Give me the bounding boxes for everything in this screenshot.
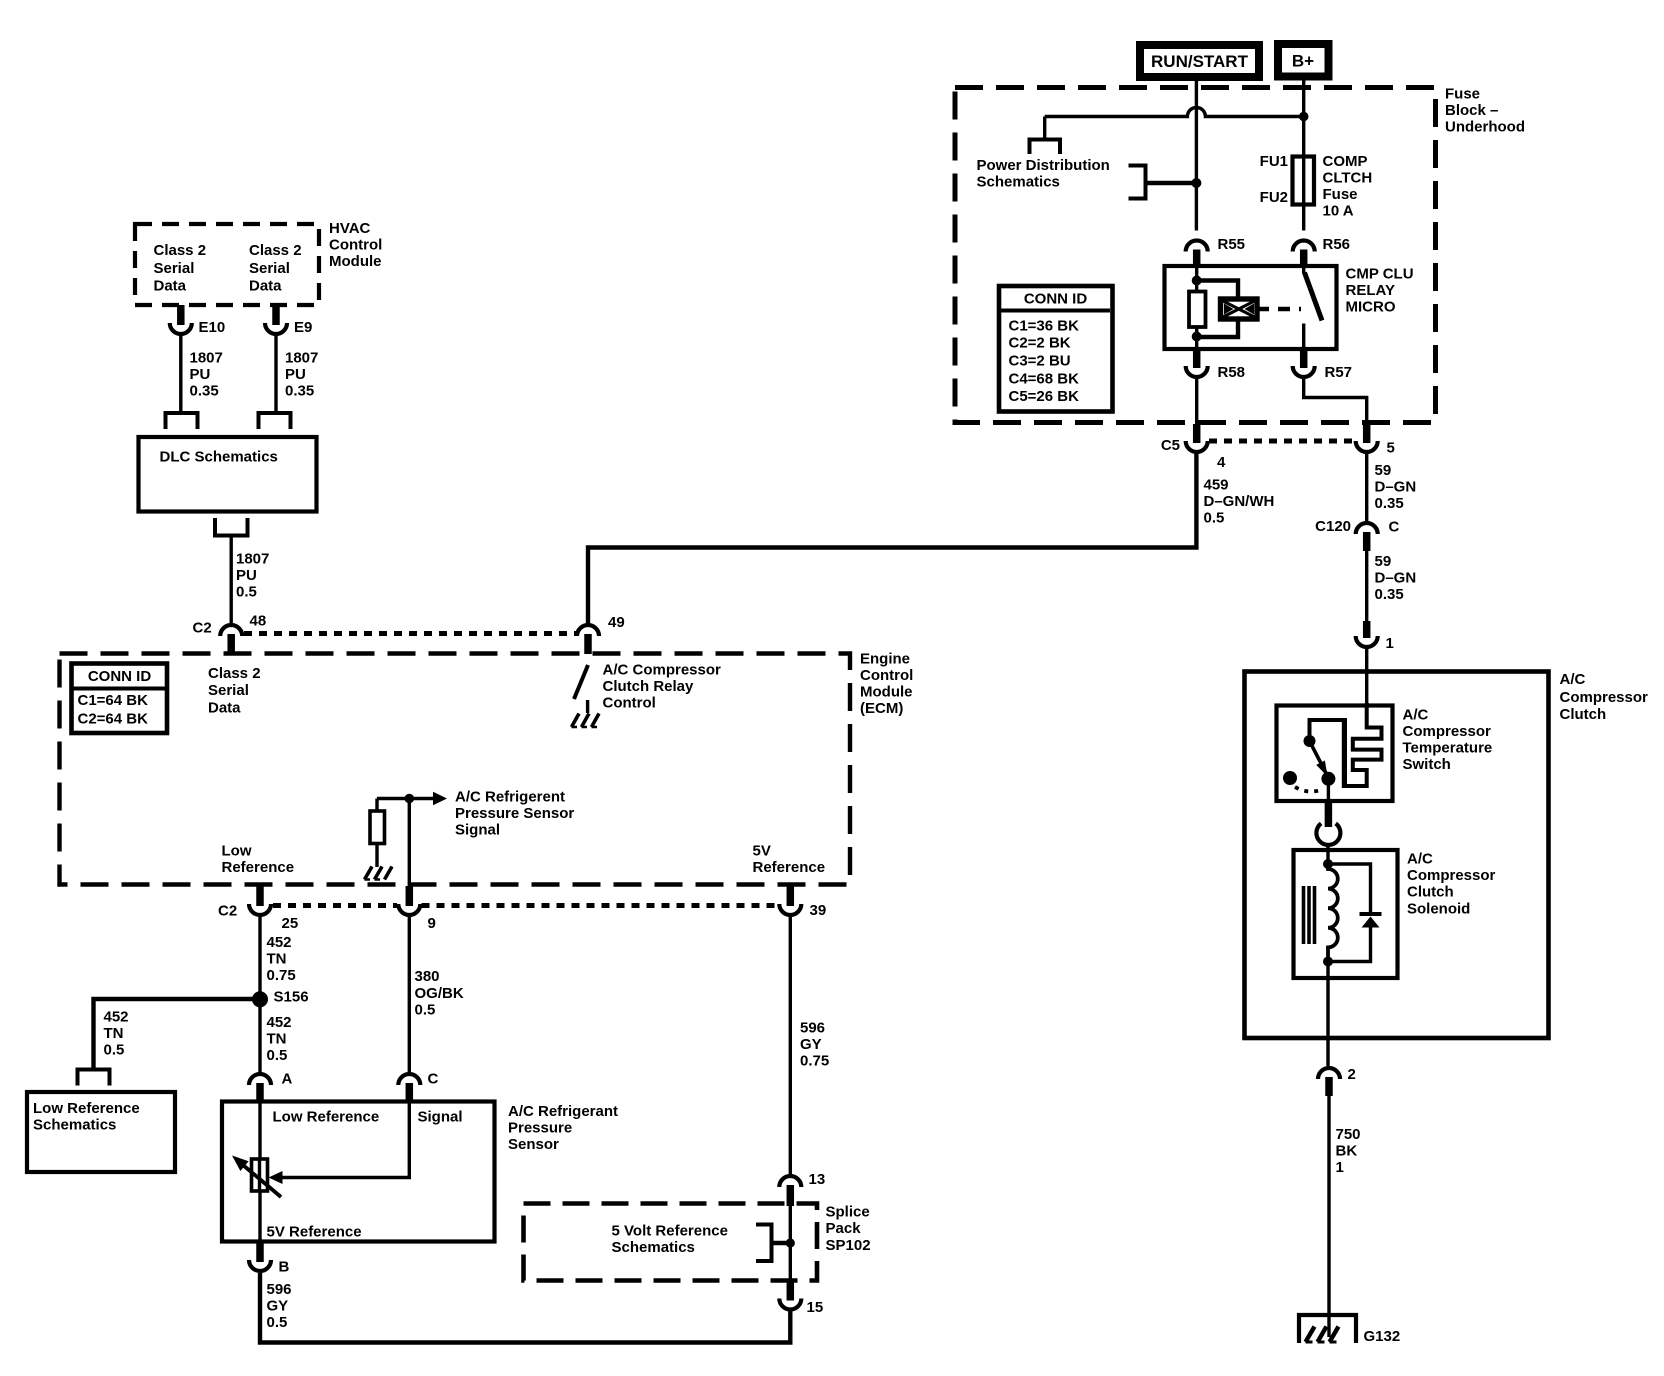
connector E10 arc	[170, 319, 225, 336]
label A/C Refrigerant Pressure Sensor	[508, 1103, 618, 1153]
wire E9 to DLC	[274, 336, 277, 411]
svg-text:Class 2: Class 2	[154, 242, 207, 259]
svg-text:CMP CLU: CMP CLU	[1346, 266, 1414, 283]
svg-text:RELAY: RELAY	[1346, 282, 1395, 299]
connector R58 arc	[1186, 364, 1245, 381]
connector R55 stub	[1193, 250, 1201, 266]
svg-text:2: 2	[1348, 1066, 1356, 1083]
connector pin 39 arc	[779, 902, 826, 919]
svg-text:0.75: 0.75	[267, 967, 296, 984]
pressure sensor signal pull-up horizontal wire with junction	[377, 792, 447, 805]
label A/C Refrigerent Pressure Sensor Signal	[455, 789, 574, 839]
svg-text:Module: Module	[329, 253, 382, 270]
relay control internal ground	[572, 700, 600, 727]
svg-text:A: A	[282, 1071, 293, 1088]
svg-text:BK: BK	[1336, 1143, 1358, 1160]
svg-text:0.35: 0.35	[1375, 586, 1404, 603]
svg-text:Data: Data	[249, 278, 282, 295]
svg-text:C: C	[428, 1071, 439, 1088]
wire pin 2 to G132	[1327, 1096, 1330, 1337]
CONN ID table fuse block	[999, 286, 1113, 412]
svg-text:0.35: 0.35	[190, 383, 219, 400]
wire S156 branch left	[94, 999, 261, 1069]
svg-text:Schematics: Schematics	[612, 1239, 695, 1256]
svg-text:5 Volt Reference: 5 Volt Reference	[612, 1223, 728, 1240]
A/C Refrigerant Pressure Sensor box	[222, 1102, 495, 1242]
wire label 1807 PU 0.35 (right)	[285, 350, 318, 400]
A/C Compressor Clutch Solenoid box	[1294, 850, 1398, 978]
svg-text:596: 596	[267, 1281, 292, 1298]
connector pin 13 arc	[779, 1171, 825, 1188]
label Low Reference (ECM)	[222, 843, 295, 877]
wire label 1807 PU 0.5	[236, 551, 269, 601]
CONN ID table ECM	[72, 664, 168, 734]
Low Reference Schematics box	[27, 1092, 175, 1172]
svg-text:GY: GY	[267, 1298, 289, 1315]
DLC exit bracket	[215, 518, 248, 536]
svg-text:C2=64 BK: C2=64 BK	[78, 711, 149, 728]
connector B stub	[256, 1242, 264, 1263]
svg-text:Compressor: Compressor	[1560, 689, 1649, 706]
connector C5 pin 4 stub	[1193, 424, 1201, 443]
bias resistor ground	[365, 867, 393, 880]
temperature switch blade with arrow	[1310, 741, 1328, 777]
svg-text:Solenoid: Solenoid	[1407, 901, 1470, 918]
label Class 2 Serial Data (left)	[154, 242, 207, 295]
svg-text:Control: Control	[860, 667, 913, 684]
potentiometer rect	[252, 1159, 268, 1191]
wire label 1807 PU 0.35 (left)	[190, 350, 223, 400]
wire switch contact out of box	[1327, 779, 1330, 801]
svg-text:MICRO: MICRO	[1346, 299, 1396, 316]
connector pin 39 stub	[787, 886, 795, 906]
svg-text:D–GN: D–GN	[1375, 570, 1417, 587]
wire branch horizontal with hop over RUN/START wire	[1045, 108, 1304, 117]
svg-text:750: 750	[1336, 1126, 1361, 1143]
connector pin 1 stub	[1363, 621, 1371, 638]
svg-text:PU: PU	[236, 567, 257, 584]
wire through fuse to R56	[1302, 157, 1305, 231]
svg-text:G132: G132	[1364, 1328, 1401, 1345]
label Splice Pack SP102	[826, 1204, 871, 1255]
svg-text:Control: Control	[603, 695, 656, 712]
svg-text:R55: R55	[1218, 236, 1246, 253]
svg-text:Data: Data	[208, 700, 241, 717]
svg-text:380: 380	[415, 968, 440, 985]
relay switch fixed contact top	[1302, 266, 1305, 274]
label Engine Control Module (ECM)	[860, 651, 913, 718]
sensor internal signal wire with arrow into potentiometer	[269, 1102, 410, 1185]
svg-text:Temperature: Temperature	[1403, 740, 1493, 757]
svg-text:596: 596	[800, 1020, 825, 1037]
svg-text:Schematics: Schematics	[977, 174, 1060, 191]
wire pin 1 into clutch box	[1365, 649, 1368, 706]
relay driver branch bottom	[1197, 319, 1238, 337]
connector R57 arc	[1293, 364, 1352, 381]
svg-text:A/C Refrigerent: A/C Refrigerent	[455, 789, 565, 806]
Engine Control Module ECM dashed box	[60, 654, 851, 885]
svg-text:Compressor: Compressor	[1403, 723, 1492, 740]
svg-text:D–GN/WH: D–GN/WH	[1204, 493, 1275, 510]
Low Reference Schematics entry bracket	[78, 1070, 110, 1086]
svg-text:Serial: Serial	[208, 682, 249, 699]
connector pin 49 stub	[584, 634, 592, 654]
connector pin 49 arc	[577, 614, 625, 636]
connector R55 arc	[1186, 236, 1245, 253]
reference bracket 5 Volt Reference	[756, 1225, 790, 1262]
connector C2 pin 48 stub	[227, 634, 235, 654]
svg-text:Signal: Signal	[418, 1109, 463, 1126]
DLC Schematics box	[139, 437, 317, 512]
wire pin 39 down to splice 13	[789, 917, 792, 1174]
svg-text:PU: PU	[190, 366, 211, 383]
wire label 59 D-GN 0.35 (lower)	[1375, 553, 1417, 603]
junction dot coil top	[1192, 276, 1202, 286]
splice internal wire 13 to 15	[789, 1200, 792, 1298]
svg-text:0.5: 0.5	[1204, 510, 1225, 527]
relay driver branch top	[1197, 281, 1238, 300]
svg-text:C3=2 BU: C3=2 BU	[1009, 353, 1071, 370]
connector C2 pin 25 stub	[256, 886, 264, 906]
relay CMP CLU RELAY MICRO box	[1165, 266, 1337, 349]
relay driver X box	[1221, 299, 1258, 319]
temperature switch pivot dot	[1304, 735, 1316, 747]
label A/C Compressor Clutch Relay Control	[603, 662, 722, 712]
label Class 2 Serial Data (right)	[249, 242, 302, 295]
svg-text:R57: R57	[1325, 364, 1353, 381]
connector E10 pin stub	[177, 305, 185, 325]
svg-text:SP102: SP102	[826, 1237, 871, 1254]
wire label 380 OG/BK 0.5	[415, 968, 464, 1019]
solenoid junction dot top	[1323, 859, 1333, 869]
svg-text:C1=64 BK: C1=64 BK	[78, 692, 149, 709]
svg-text:R56: R56	[1323, 236, 1351, 253]
svg-text:Reference: Reference	[222, 859, 295, 876]
connector A arc	[249, 1071, 293, 1088]
svg-text:1807: 1807	[190, 350, 223, 367]
svg-text:452: 452	[267, 934, 292, 951]
wire R58 down to C5	[1195, 379, 1198, 424]
svg-text:49: 49	[608, 614, 625, 631]
label 5V Reference (ECM)	[753, 843, 826, 877]
wire label 452 TN 0.5	[267, 1014, 292, 1064]
A/C Compressor Temperature Switch box	[1277, 706, 1393, 802]
power distribution exit bracket	[1030, 140, 1061, 155]
svg-text:A/C: A/C	[1403, 707, 1429, 724]
svg-text:Underhood: Underhood	[1445, 119, 1525, 136]
svg-text:Data: Data	[154, 278, 187, 295]
connector R58 stub	[1193, 350, 1201, 368]
svg-text:Serial: Serial	[249, 260, 290, 277]
bias resistor	[370, 799, 385, 868]
svg-text:5V Reference: 5V Reference	[267, 1224, 362, 1241]
connector pin 1 arc	[1356, 635, 1394, 652]
connector R57 stub	[1300, 350, 1308, 368]
svg-text:459: 459	[1204, 477, 1229, 494]
relay switch fixed contact bottom	[1302, 324, 1305, 350]
Fuse Block Underhood dashed box	[955, 88, 1436, 423]
wire label 459 D-GN/WH 0.5	[1204, 477, 1275, 527]
connector stub temp switch to solenoid	[1325, 802, 1333, 827]
svg-text:Sensor: Sensor	[508, 1136, 559, 1153]
label A/C Compressor Clutch	[1560, 671, 1649, 723]
wire pin 9 down to sensor C	[408, 917, 411, 1072]
svg-text:C2=2 BK: C2=2 BK	[1009, 335, 1071, 352]
label A/C Compressor Clutch Solenoid	[1407, 851, 1496, 918]
svg-text:0.35: 0.35	[1375, 495, 1404, 512]
connector pin 5 arc	[1356, 440, 1395, 457]
svg-text:Fuse: Fuse	[1323, 186, 1358, 203]
svg-text:10 A: 10 A	[1323, 203, 1354, 220]
DLC entry bracket left	[166, 413, 198, 429]
potentiometer wiper arrow	[232, 1156, 281, 1198]
svg-text:C120: C120	[1315, 518, 1351, 535]
A/C Compressor Clutch box	[1245, 672, 1549, 1039]
svg-text:E10: E10	[199, 319, 226, 336]
connector C arc	[398, 1071, 438, 1088]
wire label 59 D-GN 0.35 (upper)	[1375, 462, 1417, 512]
svg-text:5V: 5V	[753, 843, 771, 860]
connector pin 2 stub	[1325, 1077, 1333, 1096]
junction dot on R55 wire	[1191, 178, 1201, 188]
temperature switch open contact dot	[1283, 771, 1297, 785]
svg-text:Clutch: Clutch	[1407, 884, 1454, 901]
temperature switch travel dotted arc	[1295, 787, 1323, 792]
wire E10 to DLC	[179, 336, 182, 411]
svg-text:Fuse: Fuse	[1445, 86, 1480, 103]
svg-text:25: 25	[282, 915, 299, 932]
label FU1	[1260, 153, 1288, 170]
junction dot SP102	[786, 1238, 795, 1247]
svg-text:Splice: Splice	[826, 1204, 870, 1221]
wire label 750 BK 1	[1336, 1126, 1361, 1176]
solenoid suppression diode branch	[1328, 864, 1382, 962]
svg-text:FU1: FU1	[1260, 153, 1288, 170]
svg-text:4: 4	[1217, 454, 1226, 471]
HVAC Control Module box	[135, 224, 319, 305]
svg-text:Signal: Signal	[455, 822, 500, 839]
power feed B+ box	[1278, 44, 1329, 77]
power feed RUN/START box	[1140, 45, 1259, 77]
svg-text:Low Reference: Low Reference	[273, 1109, 380, 1126]
wire pin 25 down to S156	[258, 917, 261, 999]
junction dot coil bottom	[1192, 332, 1202, 342]
reference bracket Power Distribution	[1129, 166, 1197, 199]
wire RUN/START down to R55	[1195, 81, 1198, 231]
svg-text:Compressor: Compressor	[1407, 867, 1496, 884]
svg-text:PU: PU	[285, 366, 306, 383]
svg-text:A/C: A/C	[1407, 851, 1433, 868]
wire C120 to pin 1	[1365, 551, 1368, 623]
connector C2 pin 48 arc	[193, 613, 267, 637]
svg-text:0.5: 0.5	[267, 1314, 288, 1331]
svg-text:0.5: 0.5	[104, 1042, 125, 1059]
label A/C Compressor Temperature Switch	[1403, 707, 1493, 774]
connector C5 pin 4 arc	[1161, 437, 1226, 471]
svg-text:Block –: Block –	[1445, 102, 1498, 119]
connector E9 arc	[265, 319, 312, 336]
svg-text:Engine: Engine	[860, 651, 910, 668]
label CMP CLU RELAY MICRO	[1346, 266, 1414, 316]
svg-text:0.75: 0.75	[800, 1053, 829, 1070]
svg-text:C2: C2	[218, 903, 237, 920]
label 5 Volt Reference Schematics	[612, 1223, 728, 1257]
svg-text:CONN ID: CONN ID	[88, 668, 152, 685]
svg-text:9: 9	[428, 915, 436, 932]
svg-text:Pack: Pack	[826, 1220, 862, 1237]
svg-text:TN: TN	[267, 951, 287, 968]
wire into solenoid box	[1326, 843, 1329, 866]
svg-text:TN: TN	[267, 1031, 287, 1048]
svg-text:0.5: 0.5	[236, 584, 257, 601]
connector pin 13 stub	[787, 1185, 795, 1206]
solenoid coil	[1328, 864, 1338, 962]
label Class 2 Serial Data (ECM)	[208, 665, 261, 717]
svg-text:RUN/START: RUN/START	[1151, 52, 1249, 71]
svg-text:0.5: 0.5	[267, 1047, 288, 1064]
svg-text:R58: R58	[1218, 364, 1246, 381]
connector C120 stub	[1363, 532, 1371, 551]
svg-text:1807: 1807	[236, 551, 269, 568]
svg-text:Low Reference: Low Reference	[33, 1100, 140, 1117]
svg-text:Clutch: Clutch	[1560, 706, 1607, 723]
connector pin 15 stub	[787, 1281, 795, 1301]
svg-text:B+: B+	[1292, 52, 1314, 71]
svg-text:COMP: COMP	[1323, 153, 1368, 170]
dotted connector line 48 to 49	[244, 631, 576, 636]
svg-text:Reference: Reference	[753, 859, 826, 876]
connector C stub	[406, 1083, 414, 1100]
svg-text:C4=68 BK: C4=68 BK	[1009, 371, 1080, 388]
label HVAC Control Module	[329, 220, 382, 270]
svg-text:15: 15	[807, 1299, 824, 1316]
svg-text:HVAC: HVAC	[329, 220, 371, 237]
connector pin 9 arc	[398, 904, 436, 932]
svg-text:Control: Control	[329, 237, 382, 254]
wire label 452 TN 0.75	[267, 934, 296, 984]
svg-text:5: 5	[1387, 440, 1395, 457]
svg-text:C5: C5	[1161, 437, 1180, 454]
svg-text:39: 39	[810, 902, 827, 919]
svg-text:1807: 1807	[285, 350, 318, 367]
svg-text:Clutch Relay: Clutch Relay	[603, 678, 695, 695]
svg-text:C1=36 BK: C1=36 BK	[1009, 318, 1080, 335]
svg-text:0.5: 0.5	[415, 1002, 436, 1019]
svg-text:Power Distribution: Power Distribution	[977, 157, 1110, 174]
svg-text:(ECM): (ECM)	[860, 700, 903, 717]
svg-text:Low: Low	[222, 843, 252, 860]
svg-text:48: 48	[250, 613, 267, 630]
wire pin 5 to C120	[1365, 454, 1368, 521]
svg-text:452: 452	[104, 1009, 129, 1026]
relay switch blade	[1305, 273, 1323, 321]
connector pin 15 arc	[779, 1299, 823, 1317]
svg-text:Pressure: Pressure	[508, 1120, 572, 1137]
splice S156 dot	[252, 989, 309, 1008]
Splice Pack SP102 dashed box	[524, 1204, 818, 1281]
connector E9 pin stub	[272, 305, 280, 325]
dotted connector line C2 row	[273, 903, 778, 908]
svg-text:TN: TN	[104, 1025, 124, 1042]
wire solenoid out of clutch box	[1326, 962, 1329, 1067]
junction dot B+ branch	[1299, 112, 1309, 122]
wire label 596 GY 0.5	[267, 1281, 292, 1331]
sensor internal low reference wire	[258, 1102, 261, 1242]
wire R57 jog right down to pin 5	[1304, 379, 1367, 424]
svg-text:452: 452	[267, 1014, 292, 1031]
connector pin 5 stub	[1363, 424, 1371, 443]
svg-text:CLTCH: CLTCH	[1323, 170, 1373, 187]
svg-text:Class 2: Class 2	[208, 665, 261, 682]
svg-text:Schematics: Schematics	[33, 1117, 116, 1134]
svg-text:D–GN: D–GN	[1375, 479, 1417, 496]
clutch plates	[1304, 886, 1315, 944]
svg-text:59: 59	[1375, 462, 1392, 479]
connector A stub	[256, 1083, 264, 1100]
wire B+ down to fuse	[1302, 81, 1305, 158]
connector R56 arc	[1293, 236, 1350, 253]
wire label 596 GY 0.75	[800, 1020, 829, 1070]
temperature switch heater meander	[1310, 703, 1382, 788]
relay coil wire bottom	[1195, 327, 1198, 349]
svg-text:1: 1	[1386, 635, 1394, 652]
svg-text:C: C	[1389, 519, 1400, 536]
svg-text:FU2: FU2	[1260, 189, 1288, 206]
svg-text:59: 59	[1375, 553, 1392, 570]
svg-text:DLC Schematics: DLC Schematics	[160, 449, 278, 466]
connector pin 9 stub	[406, 886, 414, 906]
solenoid junction dot bottom	[1323, 957, 1333, 967]
ground G132	[1299, 1315, 1400, 1345]
wire 49 up and over to C5 pin 4	[588, 454, 1196, 623]
connector C120 arc	[1315, 518, 1399, 536]
svg-text:S156: S156	[274, 989, 309, 1006]
svg-text:Switch: Switch	[1403, 756, 1451, 773]
connector R56 stub	[1300, 250, 1308, 266]
label Fuse Block - Underhood	[1445, 86, 1525, 136]
svg-text:GY: GY	[800, 1036, 822, 1053]
wire label 452 TN 0.5 (branch)	[104, 1009, 129, 1059]
wire signal pin 9 vertical	[408, 799, 411, 887]
svg-text:A/C Refrigerant: A/C Refrigerant	[508, 1103, 618, 1120]
wire DLC to C2 pin 48	[229, 536, 232, 624]
svg-text:Pressure Sensor: Pressure Sensor	[455, 805, 574, 822]
svg-text:C2: C2	[193, 620, 212, 637]
svg-text:OG/BK: OG/BK	[415, 985, 464, 1002]
label COMP CLTCH Fuse 10 A	[1323, 153, 1373, 220]
wire corner down to power distribution exit bracket	[1043, 117, 1046, 140]
connector arc temp switch to solenoid	[1316, 823, 1340, 845]
connector B arc	[249, 1259, 290, 1276]
label FU2	[1260, 189, 1288, 206]
relay coil rectangle	[1189, 292, 1206, 328]
svg-text:A/C Compressor: A/C Compressor	[603, 662, 722, 679]
svg-text:1: 1	[1336, 1159, 1344, 1176]
svg-text:A/C: A/C	[1560, 671, 1586, 688]
dotted connector line C5	[1209, 439, 1354, 444]
wire S156 down to sensor A	[258, 999, 261, 1072]
svg-text:CONN ID: CONN ID	[1024, 291, 1088, 308]
svg-text:Class 2: Class 2	[249, 242, 302, 259]
svg-text:B: B	[279, 1259, 290, 1276]
temperature switch contact dot	[1321, 772, 1335, 786]
connector pin 2 arc	[1318, 1066, 1356, 1083]
relay coil wire top	[1195, 266, 1198, 292]
DLC entry bracket right	[259, 413, 291, 429]
svg-text:Module: Module	[860, 684, 913, 701]
svg-text:E9: E9	[294, 319, 312, 336]
connector C2 pin 25 arc	[218, 903, 298, 933]
